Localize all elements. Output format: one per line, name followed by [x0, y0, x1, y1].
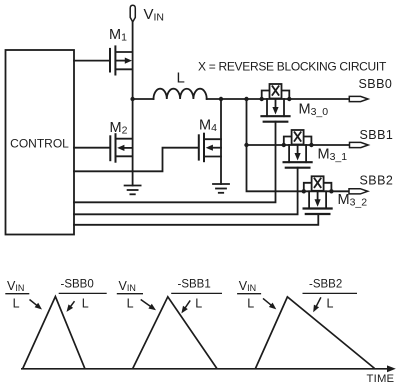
fraction bar -SBB2/L — [303, 292, 358, 294]
ground (M4) — [213, 183, 229, 185]
node LX1 junction (M1/M2/inductor) — [130, 97, 134, 101]
svg-text:SBB1: SBB1 — [360, 128, 394, 142]
fraction bar -SBB1/L — [171, 292, 222, 294]
time axis — [21, 368, 389, 370]
transistor M4 — [199, 134, 204, 162]
wire bus gate M3_2 — [74, 214, 318, 225]
fraction bar VIN/L 2 — [117, 293, 143, 295]
arrow to rising slope 2 — [141, 300, 152, 308]
svg-text:SBB2: SBB2 — [360, 173, 394, 187]
wire main line — [207, 98, 350, 100]
wire control to M1 gate — [74, 60, 109, 62]
svg-text:-SBB2: -SBB2 — [309, 279, 342, 291]
svg-text:VIN: VIN — [119, 279, 136, 293]
svg-text:-SBB0: -SBB0 — [61, 279, 94, 291]
wire SBB1 rail — [247, 99, 304, 191]
svg-text:L: L — [82, 297, 89, 311]
svg-text:TIME: TIME — [367, 373, 395, 385]
node junction on SBB1 line — [244, 143, 248, 147]
svg-text:CONTROL: CONTROL — [10, 136, 69, 150]
time axis arrowhead — [387, 365, 396, 372]
svg-text:M2: M2 — [110, 120, 128, 137]
wire bus gate M3_1 — [74, 168, 298, 215]
wire control to M4 gate — [74, 148, 198, 172]
svg-text:X = REVERSE BLOCKING CIRCUIT: X = REVERSE BLOCKING CIRCUIT — [198, 59, 387, 73]
fraction bar VIN/L 3 — [237, 293, 261, 295]
wire bus gate M3_0 — [74, 122, 276, 203]
svg-text:L: L — [177, 70, 185, 87]
reverse-blocking switch M3_2 — [302, 176, 334, 214]
waveform triangle 3 — [256, 297, 375, 369]
transistor M1 — [110, 46, 115, 74]
waveform triangle 1 — [23, 297, 85, 369]
ground (M2) — [125, 185, 141, 187]
wire control to M2 gate — [74, 147, 109, 149]
svg-text:L: L — [195, 297, 202, 311]
wire SBB2 line — [304, 190, 350, 192]
svg-text:L: L — [247, 297, 254, 311]
output terminal SBB1 — [350, 142, 369, 147]
svg-text:M4: M4 — [199, 118, 217, 135]
VIN pin terminal — [130, 5, 135, 22]
node junction (SBB1/SBB2 feed rail) — [244, 97, 248, 101]
output terminal SBB0 — [349, 96, 368, 101]
svg-text:M3_1: M3_1 — [318, 147, 348, 164]
wire VIN rail — [132, 22, 134, 99]
wire M4 rail — [220, 99, 222, 184]
fraction bar VIN/L 1 — [5, 293, 29, 295]
svg-text:M1: M1 — [109, 27, 127, 44]
svg-text:M3_0: M3_0 — [299, 102, 329, 119]
svg-text:VIN: VIN — [144, 6, 165, 24]
output terminal SBB2 — [349, 189, 368, 194]
transistor M2 — [110, 134, 115, 162]
wire M2 rail to ground — [132, 99, 134, 186]
reverse-blocking switch M3_1 — [282, 130, 314, 168]
inductor L — [133, 98, 154, 100]
wire SBB1 line — [247, 144, 350, 146]
svg-text:VIN: VIN — [239, 279, 256, 293]
arrow to falling slope 2 — [185, 300, 191, 308]
arrow to falling slope 1 — [70, 301, 75, 307]
control block — [6, 50, 75, 235]
svg-text:VIN: VIN — [7, 279, 24, 293]
arrow to rising slope 3 — [263, 298, 272, 306]
arrow to rising slope 1 — [30, 300, 38, 307]
arrow to falling slope 3 — [316, 297, 321, 307]
fraction bar -SBB0/L — [59, 292, 107, 294]
svg-text:-SBB1: -SBB1 — [178, 279, 211, 291]
svg-text:L: L — [13, 297, 20, 311]
svg-text:L: L — [127, 297, 134, 311]
reverse-blocking switch M3_0 — [260, 84, 292, 122]
svg-text:SBB0: SBB0 — [359, 77, 393, 91]
svg-text:L: L — [327, 297, 334, 311]
waveform triangle 2 — [133, 297, 217, 369]
node LX2 junction (M4 rail) — [219, 97, 223, 101]
